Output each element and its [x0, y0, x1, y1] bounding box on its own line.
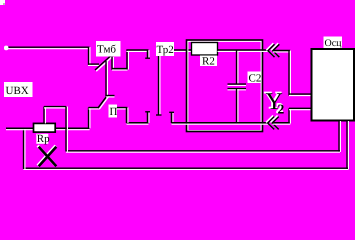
symbol Y2 scope input: [264, 88, 284, 117]
wire R2 to chevron: [218, 50, 269, 51]
bypass loop vertical x44: [44, 107, 45, 124]
wire bottom rail through box to lower chevron: [172, 123, 269, 124]
svg-text:C2: C2: [249, 73, 262, 85]
resistor Rp: [34, 123, 56, 132]
wire from Tmb blade down-step: [112, 57, 113, 71]
label C2: [248, 72, 262, 85]
wire stub to Tmb left contact: [88, 64, 99, 65]
wire vertical rise x127: [127, 50, 128, 70]
label Osc: [324, 37, 343, 50]
P pivot vertical x106 from Tmb area: [106, 61, 107, 96]
wire Tr2 to R2: [174, 50, 192, 51]
capacitor C2 top lead: [237, 50, 238, 84]
stub plug lower-left x147.5: [145, 112, 150, 124]
svg-text:Осц: Осц: [325, 38, 343, 49]
scope upper input stub y94: [289, 94, 312, 95]
main wire left y128.3: [6, 128, 90, 129]
lowest bottom wire y168.3: [24, 168, 349, 169]
wire input corner vertical: [89, 47, 90, 66]
label P: [109, 105, 118, 119]
vertical x88.5 main wire up to P switch: [89, 108, 90, 129]
P pivot foot y95.5: [106, 96, 115, 97]
chevron connector lower: [267, 116, 279, 130]
enclosure box R2/C2: [187, 40, 263, 132]
scope bottom lead 2 x347: [347, 121, 348, 170]
wire horizontal y50 to stub: [127, 50, 149, 51]
wire chevron to corner x289 lower: [273, 123, 291, 124]
wire P left contact y107.5: [89, 108, 100, 109]
label R2: [200, 56, 217, 68]
label Tr2: [156, 42, 174, 56]
chevron connector upper: [267, 43, 279, 57]
label Rp: [36, 133, 50, 145]
scope lower input stub y108: [289, 108, 312, 109]
svg-text:Rp: Rp: [37, 133, 50, 145]
bypass loop right vertical x66 down to bottom wire: [66, 107, 67, 152]
vertical x289 up to scope lower input: [289, 108, 290, 123]
wire chevron to corner x289 upper: [273, 51, 290, 52]
vertical x289 down to scope upper input: [289, 51, 290, 96]
stub plug upper x147.5: [145, 50, 150, 59]
symbol X crossed: [38, 146, 57, 167]
vertical x23.5 from main wire to lowest wire: [24, 128, 25, 169]
svg-text:UBX: UBX: [6, 85, 29, 97]
corner artifact: [0, 0, 5, 5]
wire bottom rail left segment (P switch to plug): [127, 123, 149, 124]
long bottom wire y150.8: [66, 151, 340, 152]
svg-text:R2: R2: [202, 56, 215, 68]
svg-text:Тмб: Тмб: [97, 44, 116, 56]
Tr2 hanging vertical: [156, 56, 162, 116]
wire horizontal y68.8: [112, 69, 128, 70]
label Tmb: [96, 41, 121, 57]
stub plug lower-right x171.5: [169, 112, 174, 123]
label UBX: [4, 82, 33, 97]
resistor R2: [192, 43, 218, 56]
oscilloscope box: [312, 49, 355, 121]
bypass loop top y106.5: [44, 107, 66, 108]
svg-text:2: 2: [278, 102, 285, 117]
svg-text:Тр2: Тр2: [157, 44, 174, 56]
svg-text:П: П: [110, 106, 118, 118]
switch P blade: [98, 95, 109, 110]
capacitor C2 plates: [228, 84, 247, 90]
wire P right drop x126.5: [127, 108, 128, 124]
switch Tmb blade: [95, 56, 112, 71]
wire P right contact y107.5: [117, 108, 128, 109]
wire input top-left horizontal: [4, 46, 90, 51]
capacitor C2 bottom lead: [237, 89, 238, 123]
scope bottom lead 1 x339: [339, 121, 340, 152]
